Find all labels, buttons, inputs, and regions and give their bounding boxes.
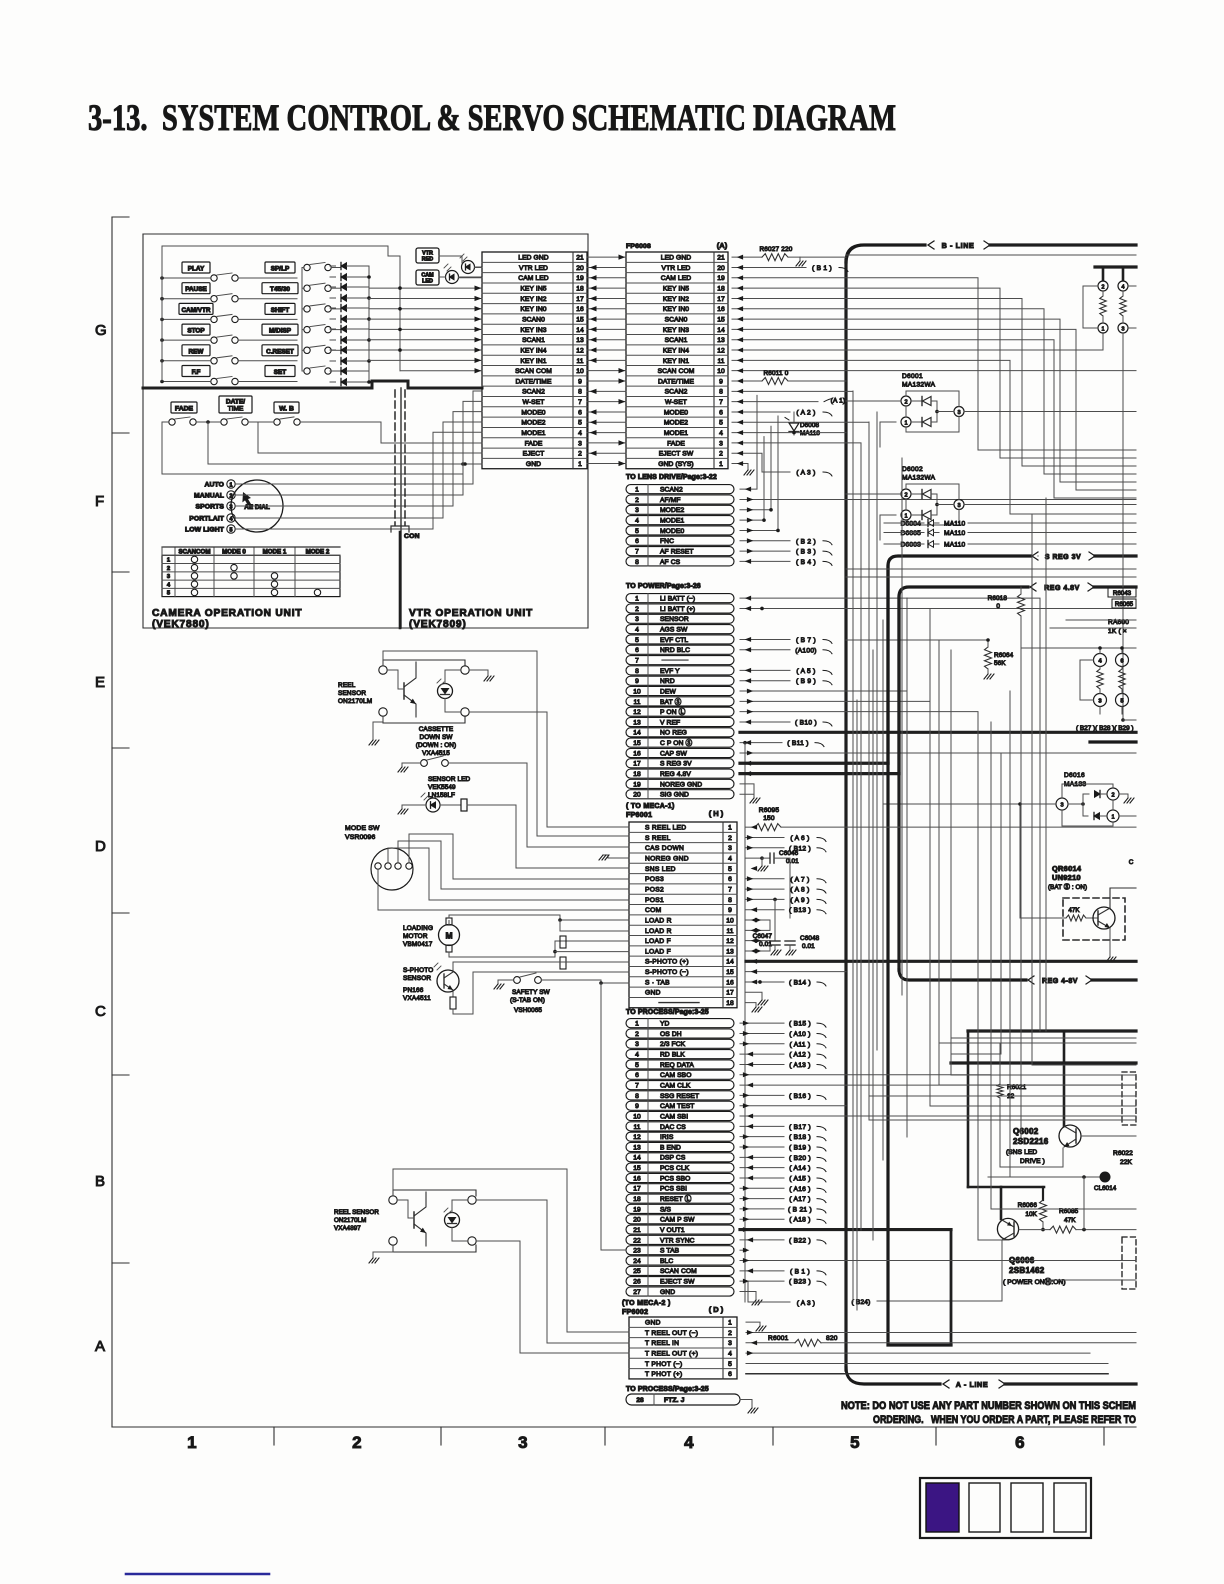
svg-text:P ON Ⓛ: P ON Ⓛ [660, 708, 686, 716]
svg-text:C6048: C6048 [800, 935, 820, 942]
pin 11 DAC CS of TO PROCESS [626, 1122, 734, 1131]
svg-text:FADE: FADE [525, 440, 543, 447]
wire q6006 emitter drop [877, 1240, 1002, 1301]
node A100 [740, 649, 790, 651]
svg-text:DOWN SW: DOWN SW [419, 734, 453, 741]
node B3 [740, 550, 790, 552]
svg-text:LOAD R: LOAD R [645, 917, 672, 924]
svg-text:POS1: POS1 [645, 897, 664, 904]
svg-text:UN9210: UN9210 [1052, 873, 1081, 882]
wire reel1 to S REEL LED [469, 712, 629, 827]
svg-text:S REEL: S REEL [645, 835, 671, 842]
svg-text:(A 1): (A 1) [831, 398, 846, 405]
svg-text:1: 1 [635, 1021, 639, 1028]
pin 10 DEW of TO POWER [626, 686, 734, 695]
node B15 [740, 1022, 784, 1024]
svg-text:4: 4 [684, 1433, 694, 1452]
svg-text:SCAN COM: SCAN COM [660, 1268, 697, 1275]
svg-text:5: 5 [230, 527, 233, 533]
svg-text:MODE2: MODE2 [521, 420, 545, 427]
svg-text:( A18 ): ( A18 ) [789, 1217, 811, 1224]
wire qr6014 collector [1110, 888, 1136, 908]
pin 9 CAM TEST of TO PROCESS [626, 1101, 734, 1110]
transistor phototransistor reel1 [387, 670, 398, 689]
svg-text:DSP CS: DSP CS [660, 1155, 686, 1162]
pin 14 DSP CS of TO PROCESS [626, 1153, 734, 1162]
capacitor C6046 0.01 [746, 857, 762, 859]
ground noreg gnd [740, 784, 754, 794]
svg-text:15: 15 [717, 316, 725, 323]
wire mode1 row [732, 432, 846, 434]
svg-text:( D ): ( D ) [709, 1305, 724, 1314]
wire safety to S TAB [541, 980, 629, 983]
svg-text:12: 12 [717, 347, 725, 354]
svg-text:2: 2 [635, 606, 639, 613]
svg-text:2SD2216: 2SD2216 [1013, 1137, 1049, 1146]
svg-text:8: 8 [578, 389, 582, 396]
button SET [265, 366, 295, 377]
ground reel2 [373, 1245, 393, 1258]
svg-text:20: 20 [633, 792, 641, 799]
svg-text:CAM LED: CAM LED [661, 275, 691, 282]
svg-text:2: 2 [1102, 284, 1105, 290]
node A10 [740, 1032, 784, 1034]
svg-text:V REF: V REF [660, 719, 680, 726]
svg-text:56K: 56K [994, 660, 1006, 667]
switch PLAY [211, 275, 217, 281]
svg-text:D6016: D6016 [1064, 772, 1085, 779]
svg-text:TO POWER/Page:3-26: TO POWER/Page:3-26 [626, 583, 701, 590]
svg-text:VTR SYNC: VTR SYNC [660, 1237, 695, 1244]
wire S TAB long to process [601, 983, 626, 1250]
svg-text:( B23 ): ( B23 ) [789, 1279, 811, 1286]
svg-text:6: 6 [728, 876, 732, 883]
svg-text:8: 8 [728, 897, 732, 904]
svg-text:47K: 47K [1068, 907, 1080, 914]
pin 6 NRD BLC of TO POWER [626, 645, 734, 654]
node A11 [740, 1043, 784, 1045]
wire fade row right [732, 443, 861, 1230]
svg-text:(A100): (A100) [795, 647, 817, 654]
svg-text:AF/MF: AF/MF [660, 497, 681, 504]
svg-text:( A15 ): ( A15 ) [789, 1175, 811, 1182]
svg-text:B: B [95, 1173, 105, 1190]
pin 16 CAP SW of TO POWER [626, 748, 734, 757]
wire reel2 top loop [393, 1169, 629, 1332]
switch C.RESET [304, 347, 310, 353]
svg-text:22K: 22K [1120, 1159, 1133, 1166]
pin 3 SENSOR of TO POWER [626, 614, 734, 623]
pin 12 P ON &#9409; of TO POWER [626, 707, 734, 716]
svg-text:150: 150 [763, 815, 775, 822]
svg-text:SCAN2: SCAN2 [665, 389, 688, 396]
svg-text:27: 27 [633, 1289, 641, 1296]
pin 9 NRD of TO POWER [626, 676, 734, 685]
node B1 [732, 266, 806, 268]
svg-text:NOREG GND: NOREG GND [645, 856, 689, 863]
svg-text:CASSETTE: CASSETTE [419, 726, 454, 733]
wire cap sw [740, 752, 1136, 754]
svg-text:SNS LED: SNS LED [645, 866, 676, 873]
svg-text:SENSOR: SENSOR [660, 616, 689, 623]
svg-text:MANUAL: MANUAL [194, 493, 224, 500]
svg-text:15: 15 [576, 316, 584, 323]
svg-text:MA110: MA110 [944, 521, 966, 528]
node A8 [746, 888, 784, 890]
svg-text:7: 7 [635, 1082, 639, 1089]
pin 11 BAT &#9416; of TO POWER [626, 697, 734, 706]
wire lens mode0 [740, 416, 778, 530]
svg-text:KEY IN0: KEY IN0 [663, 306, 689, 313]
svg-text:7: 7 [635, 657, 639, 664]
svg-text:MODE1: MODE1 [660, 518, 684, 525]
bus S REG 3V feed [740, 762, 888, 765]
pin 27 GND of TO PROCESS [626, 1287, 734, 1296]
wire top rail [162, 246, 388, 256]
node A18 [740, 1218, 784, 1220]
svg-text:MODE 1: MODE 1 [263, 549, 287, 556]
svg-text:MODE 2: MODE 2 [306, 549, 330, 556]
svg-text:2: 2 [635, 1031, 639, 1038]
button DATE/TIME [219, 396, 252, 413]
svg-text:SSG RESET: SSG RESET [660, 1093, 699, 1100]
svg-text:EJECT SW: EJECT SW [659, 451, 694, 458]
svg-text:REW: REW [189, 348, 205, 355]
svg-text:D6002: D6002 [902, 466, 923, 473]
LED reel1 [438, 684, 453, 699]
pin 8 SSG RESET of TO PROCESS [626, 1091, 734, 1100]
ground d6016 [1119, 794, 1128, 798]
wire process pin 7 [740, 1084, 1136, 1086]
svg-text:KEY IN3: KEY IN3 [663, 327, 689, 334]
wire col2 rail [301, 268, 303, 371]
svg-text:SET: SET [274, 369, 287, 376]
wire lens mode2 [740, 426, 771, 510]
svg-text:2: 2 [230, 493, 233, 499]
node A6 [746, 836, 784, 838]
ground reel1 left [373, 716, 383, 740]
svg-text:11: 11 [727, 928, 734, 935]
svg-text:5: 5 [1120, 698, 1123, 704]
svg-text:13: 13 [726, 948, 734, 955]
pin 18 REG 4.8V of TO POWER [626, 769, 734, 778]
button C.RESET [262, 345, 298, 356]
svg-text:12: 12 [633, 709, 641, 716]
svg-text:4: 4 [167, 582, 171, 588]
svg-text:( B19 ): ( B19 ) [789, 1145, 811, 1152]
button REW [182, 345, 210, 356]
wire FP6008 pin 15 [732, 319, 1136, 482]
svg-text:1: 1 [728, 1320, 732, 1327]
svg-text:SENSOR: SENSOR [338, 690, 366, 697]
svg-text:M: M [445, 931, 452, 941]
svg-text:W-SET: W-SET [523, 399, 545, 406]
svg-text:S REEL LED: S REEL LED [645, 825, 686, 832]
svg-text:CAM SBI: CAM SBI [660, 1113, 688, 1120]
node B20 [740, 1156, 784, 1158]
svg-text:19: 19 [633, 1206, 641, 1213]
pin 17 PCS SBI of TO PROCESS [626, 1184, 734, 1193]
svg-text:9: 9 [635, 678, 639, 685]
svg-text:( A 7 ): ( A 7 ) [790, 876, 809, 883]
svg-text:18: 18 [717, 286, 725, 293]
svg-text:D6001: D6001 [902, 373, 923, 380]
svg-text:Q6002: Q6002 [1013, 1127, 1039, 1136]
svg-text:( B 7 ): ( B 7 ) [796, 637, 816, 644]
svg-text:1: 1 [635, 487, 639, 494]
pin 10 CAM SBI of TO PROCESS [626, 1111, 734, 1120]
wire mode sw to POS/COM [378, 870, 629, 911]
svg-text:VXA4515: VXA4515 [422, 750, 450, 757]
pin 3 2/3 FCK of TO PROCESS [626, 1039, 734, 1048]
pin 2 LI BATT (+) of TO POWER [626, 604, 734, 613]
svg-text:REEL: REEL [338, 682, 356, 689]
svg-text:FTZ. J: FTZ. J [664, 1397, 685, 1404]
svg-text:T REEL IN: T REEL IN [645, 1340, 679, 1347]
svg-text:18: 18 [633, 771, 641, 778]
connector FP6008 [626, 252, 728, 469]
pin 4 AGS SW of TO POWER [626, 625, 734, 634]
svg-text:ON2170LM: ON2170LM [334, 1217, 366, 1224]
svg-text:20: 20 [717, 265, 725, 272]
svg-text:RD BLK: RD BLK [660, 1052, 685, 1059]
switch SP/LP [304, 264, 310, 270]
wire reg48 node [846, 639, 988, 641]
button W.B [274, 402, 299, 413]
svg-text:DAC CS: DAC CS [660, 1124, 686, 1131]
svg-text:( A 3 ): ( A 3 ) [797, 1300, 815, 1307]
svg-text:REQ DATA: REQ DATA [660, 1062, 694, 1069]
svg-text:B END: B END [660, 1144, 681, 1151]
ground sensor led [402, 805, 426, 809]
svg-text:MODE 0: MODE 0 [222, 549, 246, 556]
svg-text:( B 1 ): ( B 1 ) [790, 1268, 810, 1275]
node B2 [740, 540, 790, 542]
ground cassette sw [402, 763, 421, 767]
bus A-LINE [846, 1368, 940, 1384]
svg-text:7: 7 [719, 399, 723, 406]
svg-text:2: 2 [635, 497, 639, 504]
svg-text:0.01: 0.01 [802, 943, 815, 950]
bus REG 4.8V lower [897, 597, 900, 970]
pin 21 V OUT1 of TO PROCESS [626, 1225, 734, 1234]
transistor Q6006 2SB1462 [997, 1218, 1018, 1239]
wire trunk verticals [852, 391, 854, 1302]
pin 1 LI BATT (&#8722;) of TO POWER [626, 594, 734, 603]
svg-text:5: 5 [728, 1361, 732, 1368]
svg-text:POS2: POS2 [645, 886, 664, 893]
svg-text:CAM/VTR: CAM/VTR [181, 307, 210, 314]
svg-text:19: 19 [717, 275, 725, 282]
svg-text:820: 820 [826, 1335, 838, 1342]
switch W.B [274, 419, 280, 425]
svg-text:2: 2 [719, 451, 723, 458]
svg-text:R6001: R6001 [768, 1335, 789, 1342]
svg-text:A: A [95, 1338, 105, 1355]
svg-text:( H ): ( H ) [709, 809, 724, 818]
dashed partial boxes [1122, 1072, 1136, 1125]
wire lens af/mf [740, 498, 1136, 500]
svg-text:PCS CLK: PCS CLK [660, 1165, 690, 1172]
svg-text:15: 15 [633, 1165, 641, 1172]
svg-text:6: 6 [728, 1371, 732, 1378]
wire wb row [300, 422, 482, 443]
svg-text:7: 7 [578, 399, 582, 406]
svg-text:7: 7 [635, 548, 639, 555]
svg-text:12: 12 [726, 938, 734, 945]
svg-text:VXA4897: VXA4897 [334, 1225, 361, 1232]
pin 5 REQ DATA of TO PROCESS [626, 1060, 734, 1069]
wire process pin 10 [740, 1115, 1136, 1117]
node B22 [740, 1239, 784, 1241]
svg-text:LED GND: LED GND [661, 255, 691, 262]
svg-text:19: 19 [633, 781, 641, 788]
svg-text:23: 23 [633, 1248, 641, 1255]
pin 18 RESET &#9409; of TO PROCESS [626, 1194, 734, 1203]
LED D CAM [446, 271, 459, 284]
svg-text:6: 6 [719, 409, 723, 416]
svg-text:R6043: R6043 [1113, 590, 1132, 597]
pin 24 BLC of TO PROCESS [626, 1256, 734, 1265]
svg-text:17: 17 [576, 296, 584, 303]
svg-text:CAS DOWN: CAS DOWN [645, 845, 684, 852]
node B19 [740, 1146, 784, 1148]
ground qr6014 [1109, 928, 1111, 957]
svg-text:REEL SENSOR: REEL SENSOR [334, 1209, 379, 1216]
node A14 [740, 1167, 784, 1169]
svg-text:15: 15 [633, 740, 641, 747]
pin 2 OS DH of TO PROCESS [626, 1029, 734, 1038]
wire FP6008 pin 18 [732, 288, 1136, 458]
wire FP6008 pin 13 [732, 340, 1136, 498]
wire long rows to pins [322, 452, 447, 454]
svg-text:1: 1 [578, 461, 582, 468]
svg-text:FADE: FADE [175, 406, 194, 413]
ground process gnd [740, 1291, 756, 1300]
wire diode cathode rail [368, 266, 370, 382]
node B18 [740, 1136, 784, 1138]
wire bat s [740, 701, 930, 1106]
bus B-LINE [846, 245, 925, 262]
svg-text:( B 4 ): ( B 4 ) [796, 559, 816, 566]
wire reel1 to S REEL [383, 651, 629, 836]
svg-text:MODE2: MODE2 [660, 507, 684, 514]
node A5 [740, 669, 790, 671]
svg-text:21: 21 [576, 255, 584, 262]
svg-text:12: 12 [576, 347, 584, 354]
svg-text:PN166: PN166 [403, 987, 424, 994]
table scancom modes [162, 555, 340, 596]
node A3 process [748, 1281, 790, 1302]
pin 16 PCS SBO of TO PROCESS [626, 1173, 734, 1182]
svg-text:MODE1: MODE1 [521, 430, 545, 437]
svg-text:TO LENS DRIVE/Page:3-22: TO LENS DRIVE/Page:3-22 [626, 474, 717, 481]
bus v out1 [740, 1228, 951, 1231]
svg-text:LOAD F: LOAD F [645, 938, 671, 945]
wire p on [740, 712, 978, 1240]
diode D6008 MA110 [793, 412, 795, 423]
button FADE [171, 402, 197, 413]
svg-text:10: 10 [717, 368, 725, 375]
svg-text:LOAD F: LOAD F [645, 948, 671, 955]
node B 21 [740, 1208, 784, 1210]
wire rail PLAY [162, 277, 211, 279]
wire rail CAM/VTR [162, 318, 211, 320]
ground FTZ [740, 1400, 752, 1409]
node B13 [746, 909, 784, 911]
svg-text:(S-TAB ON): (S-TAB ON) [510, 997, 545, 1004]
svg-text:D6003: D6003 [901, 542, 922, 549]
node CL6014 [988, 1176, 1105, 1178]
svg-text:3: 3 [1060, 802, 1063, 808]
pin 14 NO REG of TO POWER [626, 728, 734, 737]
svg-text:3: 3 [728, 1340, 732, 1347]
svg-text:0: 0 [996, 603, 1000, 610]
wire motor to LOAD R [448, 921, 450, 925]
svg-text:3: 3 [635, 1041, 639, 1048]
AE dial cursor [242, 492, 251, 505]
svg-text:( TO MECA-1): ( TO MECA-1) [626, 803, 675, 810]
switch M/DISP [304, 326, 310, 332]
svg-text:VTR OPERATION UNIT: VTR OPERATION UNIT [409, 608, 533, 619]
pin 15 PCS CLK of TO PROCESS [626, 1163, 734, 1172]
svg-text:( A10 ): ( A10 ) [789, 1031, 811, 1038]
arrows FP6008 right [738, 255, 743, 465]
wire rail REW [162, 360, 211, 362]
svg-text:EJECT: EJECT [523, 451, 545, 458]
svg-text:RED: RED [422, 257, 433, 263]
pin 8 AF CS of TO LENS DRIVE [626, 557, 734, 566]
label box R6065 [1112, 599, 1136, 608]
pin 5 EVF CTL of TO POWER [626, 635, 734, 644]
svg-text:TO PROCESS/Page:3-25: TO PROCESS/Page:3-25 [626, 1386, 709, 1393]
svg-text:LI BATT (−): LI BATT (−) [660, 596, 695, 603]
switch REW [211, 358, 217, 364]
wire left rail [161, 246, 163, 381]
svg-text:S REG 3V: S REG 3V [660, 761, 692, 768]
wire key in4 to array [732, 334, 1103, 351]
svg-text:B - LINE: B - LINE [942, 241, 975, 250]
pin 6 CAM SBO of TO PROCESS [626, 1070, 734, 1079]
svg-text:(VEK7880): (VEK7880) [152, 619, 210, 630]
svg-text:10: 10 [633, 688, 641, 695]
svg-text:TO PROCESS/Page:3-25: TO PROCESS/Page:3-25 [626, 1009, 709, 1016]
svg-text:FADE: FADE [667, 440, 685, 447]
svg-text:12: 12 [633, 1134, 641, 1141]
svg-text:( B24): ( B24) [852, 1299, 871, 1306]
switch F.F [211, 378, 217, 384]
svg-text:VEK5549: VEK5549 [428, 784, 456, 791]
svg-text:14: 14 [633, 1155, 641, 1162]
svg-text:( A 9 ): ( A 9 ) [790, 897, 809, 904]
svg-text:21: 21 [633, 1227, 641, 1234]
svg-text:VSR0096: VSR0096 [345, 834, 376, 841]
svg-text:1: 1 [719, 461, 723, 468]
svg-text:SCAN2: SCAN2 [660, 487, 683, 494]
svg-text:CAMERA OPERATION UNIT: CAMERA OPERATION UNIT [152, 608, 302, 619]
resistor array RA bottom [1094, 654, 1107, 667]
wire t reel out- [746, 1331, 1136, 1333]
svg-text:8: 8 [635, 559, 639, 566]
wire lens scan2 [740, 395, 757, 489]
svg-text:D6008: D6008 [800, 422, 819, 429]
svg-text:4: 4 [1098, 658, 1102, 664]
svg-text:ON2170LM: ON2170LM [338, 698, 372, 705]
svg-text:1K ( ×: 1K ( × [1108, 628, 1127, 635]
pin 2 AF/MF of TO LENS DRIVE [626, 495, 734, 504]
svg-text:13: 13 [576, 337, 584, 344]
wire lens mode1 [740, 437, 764, 521]
